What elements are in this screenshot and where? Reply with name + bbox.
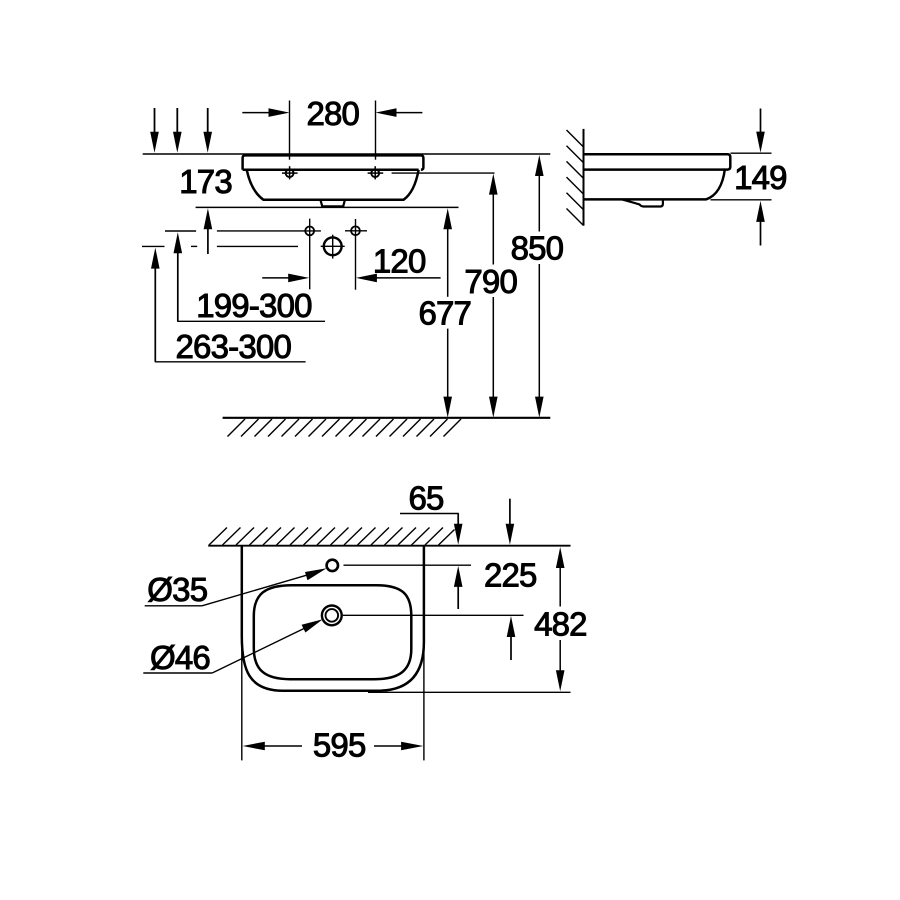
fixing hole left (front) [286,169,294,177]
svg-text:173: 173 [179,163,232,200]
dimension 149 extension line top [731,152,772,154]
floor hatching [228,419,462,437]
dash of line B [191,245,197,247]
dimension 790 line [489,174,498,195]
arrow to siphon level line [204,208,213,229]
svg-text:120: 120 [373,242,426,279]
svg-text:790: 790 [464,263,517,300]
dimension 65 shelf line [400,513,459,515]
supply hole 2 (front) [351,226,360,235]
floor line [223,417,551,419]
svg-text:263-300: 263-300 [176,328,292,365]
svg-text:595: 595 [313,727,366,764]
wall line (side view) [583,129,585,226]
drain supply line B [217,245,298,247]
svg-text:65: 65 [408,479,443,516]
supply hole 1 (front) [305,227,314,236]
svg-text:149: 149 [734,159,787,196]
wall reference line (front view) [143,153,551,155]
siphon level line (677 reference) [196,206,459,208]
fixing hole right (front) [371,169,379,177]
dimension 280 extension line left [289,101,291,160]
svg-text:677: 677 [418,295,471,332]
dimension 263-300 leader arrow [151,248,160,269]
svg-text:Ø35: Ø35 [147,571,207,608]
wall line (plan) [208,545,570,547]
tap hole (plan) [327,560,338,571]
dimension 65 down arrow [457,514,459,526]
drain extension line [343,614,524,616]
dimension 149 extension line bottom [711,199,772,201]
tap hole extension line [344,564,472,566]
dimension 595 line with arrows [243,742,265,751]
svg-text:225: 225 [484,557,537,594]
svg-text:Ø46: Ø46 [150,639,210,676]
tick line A (tap supply level) [165,230,196,232]
dimension 850 line [535,155,544,176]
dimension 65 up arrow [454,566,463,587]
wall hatching (plan) [209,528,455,546]
rim underside line (side) [584,168,725,171]
dimension 280 extension line right [375,101,377,160]
drain hole inner (plan) [326,609,339,622]
dimension 199-300 underline [177,320,325,322]
svg-text:482: 482 [534,605,587,642]
fixing hole level extension line to 790 dimension [392,172,495,174]
dimension 225 down arrow [509,499,511,525]
tap supply line A right bar through hole 2 [345,230,367,232]
basin outer outline (plan) [242,547,424,691]
washbasin bowl outline (front) [247,170,419,200]
dimension 482 bottom extension line [368,691,571,693]
dimension 595 right extension line [423,644,425,760]
washbasin outline (side) [584,154,731,199]
dimension 280 left arrow [242,112,270,114]
washbasin rim outline (front) [243,155,424,169]
basin inner bowl (plan) [254,585,411,679]
dimension 199-300 leader arrow [174,232,183,253]
wall hatching (side view) [567,130,584,226]
dimension 225 up arrow [507,616,516,637]
line B bar through drain circle [321,245,345,247]
load arrow 3 [207,108,209,134]
dimension 595 left extension line [241,637,243,760]
drain hole outer (plan) [322,606,342,626]
tick line B (drain supply level) [142,245,165,247]
load arrow 1 [154,108,156,134]
svg-text:199-300: 199-300 [196,287,312,324]
dimension 149 bottom arrow [756,201,765,222]
drain boss (side) [623,200,663,207]
drain boss (front) [320,200,345,207]
dimension 120 left arrow [262,277,290,279]
dimension 120 right arrow [375,277,441,279]
load arrow 2 [176,108,178,134]
dimension 263-300 underline [155,361,306,363]
tap supply line A [217,230,321,232]
dimension 482 line [556,547,565,568]
svg-text:280: 280 [306,95,359,132]
washbasin rim underside line (front) [243,169,419,172]
svg-text:850: 850 [511,230,564,267]
dimension 677 line [443,208,452,229]
dimension 149 top arrow [760,109,762,134]
drain outlet circle (front) [324,237,342,255]
dimension 280 right arrow [395,112,422,114]
